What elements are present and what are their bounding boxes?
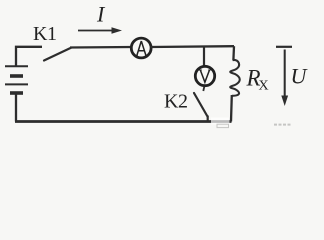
node junction above voltmeter xyxy=(203,47,205,68)
svg-text:U: U xyxy=(291,64,309,89)
wire right side top segment xyxy=(233,46,234,60)
svg-text:K1: K1 xyxy=(33,23,56,45)
battery: positive long plate (top cell) xyxy=(5,65,28,67)
voltmeter V xyxy=(195,66,214,85)
switch K1 blade xyxy=(44,48,71,61)
wire K2 pivot to bottom wire xyxy=(207,116,209,122)
wire from switch to ammeter xyxy=(70,46,132,49)
ammeter A xyxy=(131,38,151,58)
svg-text:K2: K2 xyxy=(164,91,187,113)
battery: positive long plate (bottom cell) xyxy=(5,83,28,85)
voltage U arrow xyxy=(284,50,286,98)
svg-text:X: X xyxy=(259,79,269,94)
switch K2 blade xyxy=(194,93,208,117)
voltmeter bottom stub xyxy=(203,87,204,92)
wire right side bottom segment xyxy=(230,95,233,122)
current arrow xyxy=(78,30,114,32)
scan artifact: faint box outline below wire xyxy=(217,124,229,127)
scan artifact: white patch over bottom wire xyxy=(211,118,230,125)
voltage U reference bar xyxy=(276,46,292,48)
battery: negative short plate (top cell) xyxy=(10,74,23,78)
battery: negative short plate (bottom cell) xyxy=(10,91,23,95)
battery bottom lead xyxy=(15,94,17,122)
wire from ammeter to top-right corner xyxy=(150,45,234,48)
wire top-left corner from battery to switch xyxy=(16,47,42,66)
scan artifact: faint gray dashes bottom right xyxy=(274,124,292,126)
resistor Rx coil xyxy=(230,60,240,96)
bottom wire xyxy=(15,120,232,123)
